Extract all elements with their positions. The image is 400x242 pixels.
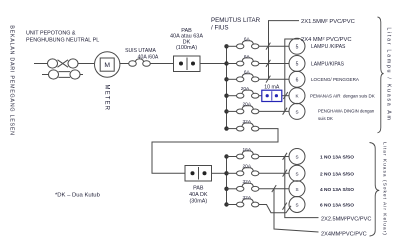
svg-text:40A /60A: 40A /60A <box>138 54 159 60</box>
value label: 16A branch 7 <box>243 147 252 153</box>
wire: fuse to outlet point <box>259 78 289 80</box>
fuse carrier left contact <box>237 109 244 114</box>
pin glyph: socket circle 10 <box>295 203 298 208</box>
branch circuit 4 (20A pemanas air) <box>227 88 306 104</box>
cable tick mark <box>283 92 287 99</box>
svg-text:PENGHAWA DINGIN dengan: PENGHAWA DINGIN dengan <box>318 109 375 114</box>
svg-text:4 NO 13A S/SO: 4 NO 13A S/SO <box>320 187 354 193</box>
fuse carrier right contact <box>252 44 259 49</box>
wire: bus to fuse F7 <box>227 128 237 130</box>
svg-text:S: S <box>295 187 298 192</box>
socket outlet circle <box>289 181 305 197</box>
net label: 4 no socket <box>320 187 354 193</box>
svg-text:S: S <box>295 155 298 160</box>
svg-text:2X4MM²PVC/PVC: 2X4MM²PVC/PVC <box>321 232 367 238</box>
junction: top bus row 2 <box>224 61 228 65</box>
junction: bottom bus row 3 <box>224 187 228 191</box>
value label: 32A branch 9 <box>243 179 252 185</box>
pin glyph: socket circle 8 <box>295 171 298 176</box>
cable label: 2X4MM PVC/PVC bottom <box>321 232 367 238</box>
wire: bus to fuse F2 <box>227 45 237 47</box>
fuse carrier bridge <box>242 58 254 62</box>
svg-text:PAB: PAB <box>193 186 204 192</box>
cable tick mark <box>283 170 287 177</box>
svg-text:M: M <box>104 62 110 69</box>
junction: top bus row 3 <box>224 77 228 81</box>
svg-text:2X2.5MM²PVC/PVC: 2X2.5MM²PVC/PVC <box>321 216 371 222</box>
fuse carrier left contact <box>237 126 244 131</box>
svg-text:S: S <box>295 109 298 114</box>
value label: 10 mA <box>264 85 280 91</box>
outlet symbol circle <box>289 88 305 104</box>
fuse carrier left contact <box>237 202 244 207</box>
label: METER (vertical) <box>103 85 109 112</box>
value label: 20A branch 4 <box>241 86 250 92</box>
label: meter letter M <box>104 62 110 69</box>
wire: bus to fuse F11 <box>227 204 237 206</box>
net label: 2 no socket <box>320 171 354 177</box>
cable tick mark <box>266 60 270 67</box>
svg-text:S: S <box>295 171 298 176</box>
wire: bus to fuse F6 <box>227 110 237 112</box>
svg-text:2 NO 13A S/SO: 2 NO 13A S/SO <box>320 171 354 177</box>
svg-text:2X1.5MM² PVC/PVC: 2X1.5MM² PVC/PVC <box>301 19 355 25</box>
svg-text:6 NO 13A S/SO: 6 NO 13A S/SO <box>320 203 354 209</box>
svg-text:S: S <box>295 203 298 208</box>
branch circuit 3 (6A loceng/penggera) <box>227 71 306 87</box>
net label: penghawa dingin <box>318 109 375 121</box>
wire: incoming neutral <box>42 74 49 76</box>
svg-text:Litar Kuasa (Soket Air Keluar): Litar Kuasa (Soket Air Keluar) <box>381 142 387 236</box>
outlet symbol circle <box>289 71 305 87</box>
svg-text:(30mA): (30mA) <box>189 199 207 205</box>
cable tick mark <box>266 43 270 50</box>
svg-text:5: 5 <box>296 44 299 50</box>
fuse carrier bridge <box>242 183 254 187</box>
cable label: 2X1.5MM PVC/PVC <box>301 19 355 25</box>
outlet symbol circle <box>289 38 305 54</box>
net label: 6 no socket <box>320 203 354 209</box>
svg-text:16A: 16A <box>243 147 252 153</box>
fuse carrier bridge <box>242 74 254 78</box>
junction: bottom bus row 4 <box>224 202 228 206</box>
wire: bus to fuse F5 <box>227 95 237 97</box>
branch circuit 2 (6A lampu/kipas 2) <box>227 56 306 72</box>
branch circuit 1 (6A lampu/kipas 1) <box>227 38 306 54</box>
fuse carrier right contact <box>252 61 259 66</box>
wire: bus to fuse F4 <box>227 78 237 80</box>
brace: litar lampu / kuasa am group <box>378 17 384 133</box>
wire: bus to fuse F10 <box>227 188 237 190</box>
leader: 2X1.5MM cable callout to branches 1-3 <box>269 21 300 80</box>
wire: PAB1 to top busbar <box>200 63 227 65</box>
RCCB PAB1 (40A/63A DK 100mA) <box>174 56 201 72</box>
fuse carrier bridge <box>242 90 254 94</box>
note: *DK - dua kutub <box>55 193 101 199</box>
branch circuit 6 (32A feed to PAB2) <box>227 123 259 131</box>
svg-text:40A DK: 40A DK <box>189 192 208 198</box>
svg-text:LAMPU/KIPAS: LAMPU/KIPAS <box>311 61 345 67</box>
cable tick mark <box>272 185 276 192</box>
svg-text:BEKALAN DARI PEMEGANG LESEN: BEKALAN DARI PEMEGANG LESEN <box>8 25 14 136</box>
label: pemutus litar / fius <box>211 17 261 32</box>
cable label: 2X4 MM PVC/PVC <box>301 37 352 43</box>
net label: lampu/kipas 2 <box>311 61 345 67</box>
group label: litar lampu / kuasa am (vertical) <box>385 27 391 121</box>
label: unit pepotong & penghubung neutral PL <box>26 31 99 44</box>
junction: top bus row 6 <box>224 126 228 130</box>
wire: RCCB 10mA to outlet <box>282 95 289 97</box>
junction: bottom bus row 2 <box>224 171 228 175</box>
svg-text:PENGHUBUNG NEUTRAL PL: PENGHUBUNG NEUTRAL PL <box>26 38 99 44</box>
wire: meter to main switch <box>120 63 129 65</box>
fuse carrier right contact <box>252 154 259 159</box>
pin glyph: outlet circle 5 <box>295 109 298 114</box>
junction: top bus row 1 <box>224 44 228 48</box>
fuse carrier bridge <box>242 123 254 127</box>
pin glyph: outlet circle 4 <box>295 94 299 99</box>
bottom busbar (socket circuits) <box>226 157 228 205</box>
cable tick mark <box>283 203 287 210</box>
fuse carrier right contact <box>252 171 259 176</box>
svg-text:32A: 32A <box>243 179 252 185</box>
junction: bottom bus row 1 <box>224 154 228 158</box>
pin glyph: socket circle 9 <box>295 187 298 192</box>
value label: 6A branch 2 <box>244 54 251 60</box>
svg-text:32A: 32A <box>243 119 252 125</box>
pin glyph: outlet circle 2 <box>296 62 299 68</box>
RCCB PAB2 (40A DK 30mA) <box>185 166 212 182</box>
svg-text:LOCENG/ PENGGERA: LOCENG/ PENGGERA <box>311 77 360 82</box>
branch circuit 10 (32A 6 NO 13A S/SO) <box>227 197 306 213</box>
fuse carrier right contact <box>252 202 259 207</box>
value label: 32A branch 10 <box>243 195 252 201</box>
outlet symbol circle <box>289 103 305 119</box>
svg-text:suis DK: suis DK <box>318 116 333 121</box>
net label: 1 no socket <box>320 155 354 161</box>
top busbar (pemutus litar / fius) <box>226 46 228 128</box>
cable tick mark <box>283 153 287 160</box>
branch circuit 8 (20A 2 NO 13A S/SO) <box>227 165 306 181</box>
fuse carrier right contact <box>252 186 259 191</box>
svg-text:5: 5 <box>296 62 299 68</box>
socket outlet circle <box>289 197 305 213</box>
wire: fuse to socket outlet (offset run) <box>259 205 291 213</box>
leader: 2X4MM cable callout to branches 4-5 <box>285 39 299 111</box>
wire: neutral link tail <box>80 74 83 76</box>
svg-text:20A: 20A <box>243 102 252 108</box>
fuse carrier bridge <box>242 106 254 110</box>
svg-text:Litar Lampu / Kuasa Am: Litar Lampu / Kuasa Am <box>385 27 391 121</box>
value label: 6A branch 1 <box>244 37 251 43</box>
branch circuit 7 (16A 1 NO 13A S/SO) <box>227 149 306 165</box>
wire: fuse to outlet point <box>259 110 289 112</box>
branch circuit 9 (32A 4 NO 13A S/SO) <box>227 181 306 197</box>
net label: bekalan dari pemegang lesen (vertical) <box>8 25 14 136</box>
wire: bus to fuse F8 <box>227 156 237 158</box>
cable tick mark <box>266 76 270 83</box>
value label: 32A branch 6 <box>243 119 252 125</box>
fuse carrier left contact <box>237 186 244 191</box>
wire: main switch to PAB1 <box>151 63 174 65</box>
pin glyph: outlet circle 3 <box>296 77 299 83</box>
fuse carrier right contact <box>252 77 259 82</box>
svg-text:*DK – Dua Kutub: *DK – Dua Kutub <box>55 193 101 199</box>
branch circuit 5 (20A penghawa dingin) <box>227 103 306 119</box>
svg-text:6A: 6A <box>244 37 251 43</box>
svg-text:20A: 20A <box>243 164 252 170</box>
wire: fuse to socket outlet <box>259 188 289 190</box>
svg-text:20A: 20A <box>241 86 250 92</box>
fuse carrier right contact <box>252 109 259 114</box>
fuse carrier left contact <box>237 61 244 66</box>
fuse carrier left contact <box>237 93 244 98</box>
fuse carrier left contact <box>237 154 244 159</box>
socket outlet circle <box>289 165 305 181</box>
svg-text:UNIT PEPOTONG &: UNIT PEPOTONG & <box>26 31 76 37</box>
cable label: 2X2.5MM PVC/PVC bottom <box>321 216 371 222</box>
wire: fuse to outlet point <box>259 45 289 47</box>
leader: 2X4MM cable callout to socket branch 10 <box>274 189 319 232</box>
fuse carrier left contact <box>237 171 244 176</box>
svg-text:6: 6 <box>296 77 299 83</box>
svg-text:PEMANAS AIR dengan suis DK: PEMANAS AIR dengan suis DK <box>310 94 375 99</box>
svg-text:(100mA): (100mA) <box>176 45 197 51</box>
value label: PAB1 40A atau 63A DK (100mA) <box>170 28 203 51</box>
socket outlet circle <box>289 149 305 165</box>
svg-text:PEMUTUS LITAR: PEMUTUS LITAR <box>211 17 261 24</box>
fuse carrier right contact <box>252 126 259 131</box>
main switch S1 (suis utama 40A/60A) <box>129 59 151 66</box>
value label: PAB2 40A DK (30mA) <box>189 186 208 205</box>
net label: lampu/kipas 1 <box>311 44 346 50</box>
fuse carrier left contact <box>237 77 244 82</box>
wire: PAB2 to bottom busbar <box>212 172 227 174</box>
fuse carrier bridge <box>242 168 254 172</box>
svg-text:10 mA: 10 mA <box>264 85 280 91</box>
wire: bus to fuse F9 <box>227 172 237 174</box>
pin glyph: outlet circle 1 <box>296 44 299 50</box>
fuse carrier bridge <box>242 151 254 155</box>
leader: 2X2.5MM cable callout to socket branches <box>285 157 319 218</box>
RCCB 10mA (blue) for water heater <box>262 90 282 101</box>
wire: fuse to socket outlet <box>259 156 289 158</box>
svg-text:6A: 6A <box>244 54 251 60</box>
svg-text:SUIS UTAMA: SUIS UTAMA <box>125 48 156 54</box>
svg-text:/ FIUS: / FIUS <box>211 25 229 32</box>
wire: fuse to outlet point <box>259 63 289 65</box>
pin glyph: socket circle 7 <box>295 155 298 160</box>
wire: fuse to socket outlet <box>259 172 289 174</box>
net label: loceng/penggera <box>311 77 360 82</box>
svg-text:LAMPU /KIPAS: LAMPU /KIPAS <box>311 44 346 50</box>
net label: pemanas air <box>310 94 375 99</box>
neutral link PL <box>49 70 84 79</box>
wire: cutout to meter <box>78 63 94 65</box>
value label: 20A branch 8 <box>243 164 252 170</box>
fuse cutout F1 (unit pepotong) <box>48 59 79 68</box>
outlet symbol circle <box>289 56 305 72</box>
brace: litar kuasa (soket) group <box>370 143 380 237</box>
wire: branch 6 feed down to PAB2 <box>152 129 278 174</box>
cable tick mark <box>283 108 287 115</box>
fuse carrier bridge <box>242 41 254 45</box>
wire: bus to fuse F3 <box>227 63 237 65</box>
group label: litar kuasa soket alir keluar (vertical) <box>381 142 387 236</box>
fuse carrier right contact <box>252 93 259 98</box>
wire: fuse to RCCB 10mA <box>259 95 262 97</box>
meter M1 (kWh meter) <box>95 52 120 77</box>
fuse carrier bridge <box>242 199 254 203</box>
fuse carrier left contact <box>237 44 244 49</box>
label: suis utama 40A/60A <box>125 48 159 60</box>
wire: incoming live from licensee supply <box>34 63 48 65</box>
junction: top bus row 5 <box>224 109 228 113</box>
svg-text:METER: METER <box>103 85 109 112</box>
svg-text:1 NO 13A S/SO: 1 NO 13A S/SO <box>320 155 354 161</box>
junction: top bus row 4 <box>224 94 228 98</box>
value label: 20A branch 5 <box>243 102 252 108</box>
svg-text:6A: 6A <box>244 70 251 76</box>
svg-text:32A: 32A <box>243 195 252 201</box>
svg-text:2X4 MM² PVC/PVC: 2X4 MM² PVC/PVC <box>301 37 352 43</box>
value label: 6A branch 3 <box>244 70 251 76</box>
